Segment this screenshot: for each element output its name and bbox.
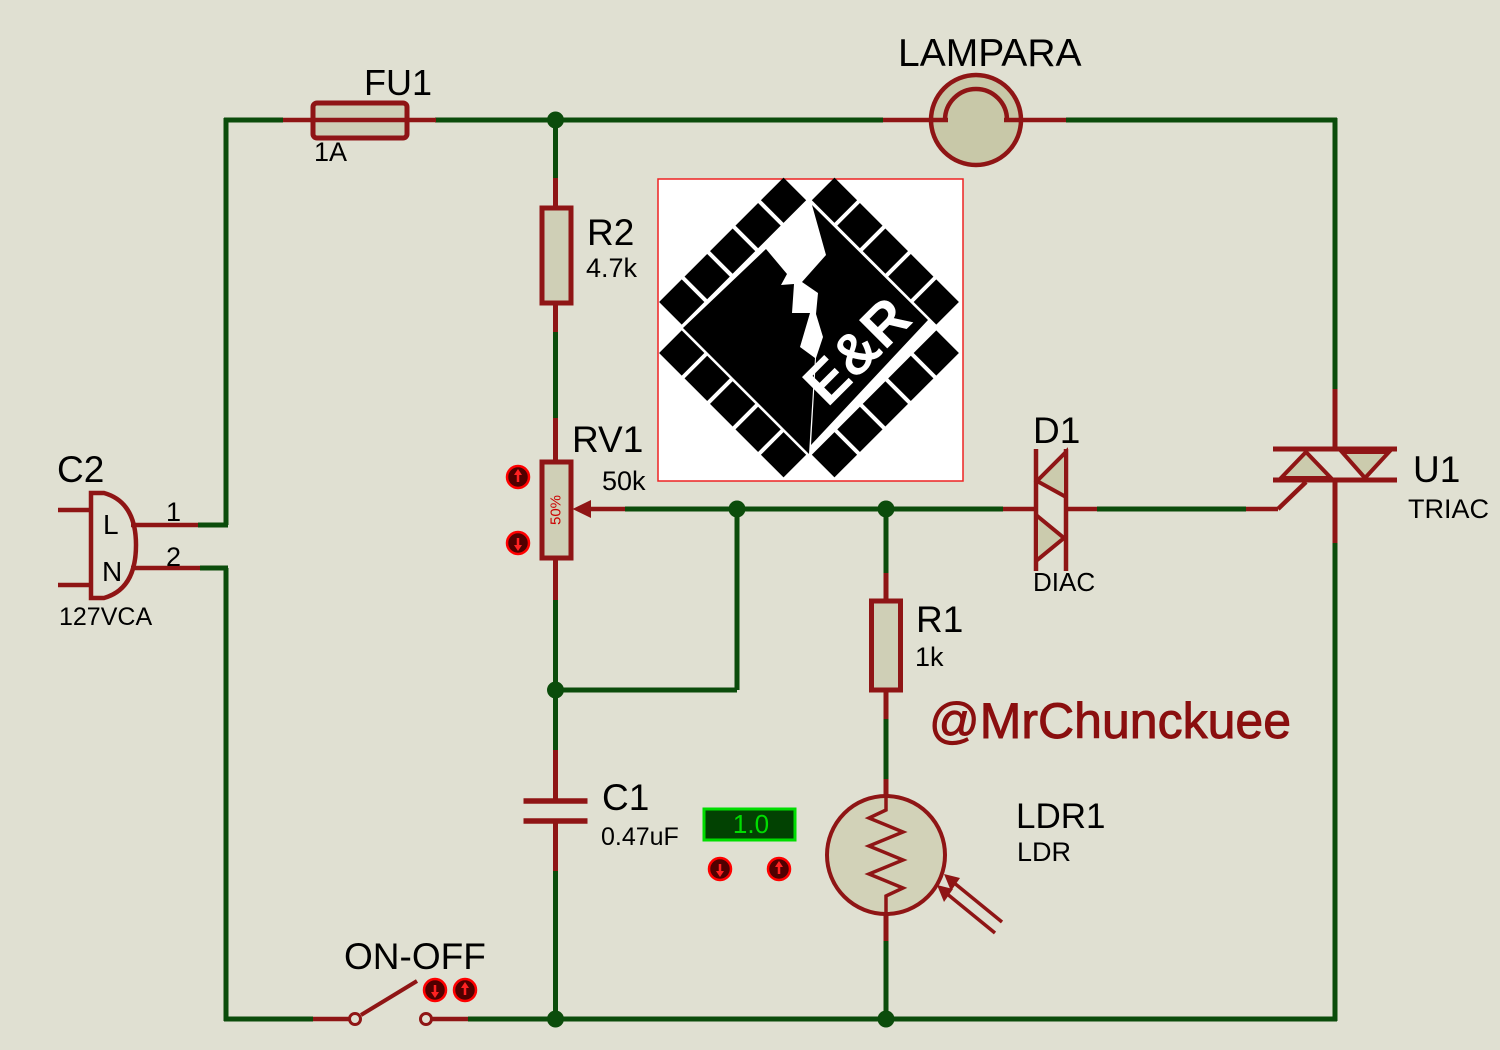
wire bottom rail right [468, 1017, 1337, 1022]
svg-text:R1: R1 [916, 599, 963, 640]
svg-text:1: 1 [166, 497, 181, 527]
svg-text:C2: C2 [57, 449, 104, 490]
svg-text:RV1: RV1 [572, 419, 643, 460]
switch ON-OFF [313, 936, 486, 1025]
wire right vertical lower [1333, 543, 1338, 1021]
pin 2 of C2 [131, 566, 200, 571]
wire wiper horizontal [625, 507, 1003, 512]
svg-text:TRIAC: TRIAC [1408, 494, 1489, 524]
svg-text:R2: R2 [587, 212, 634, 253]
logo E&R [634, 152, 985, 503]
wire LDR column bottom [884, 941, 889, 1019]
node wiper branch junction [729, 501, 746, 518]
LDR up button [768, 858, 790, 880]
capacitor C1 [524, 750, 679, 871]
wire R1 column mid [884, 719, 889, 779]
LDR down button [709, 858, 731, 880]
node LDR bottom junction [878, 1011, 895, 1028]
wire top rail left [224, 118, 283, 123]
svg-text:1.0: 1.0 [733, 809, 769, 839]
wire diac to gate [1097, 507, 1246, 512]
svg-text:LDR: LDR [1017, 837, 1071, 867]
svg-text:LDR1: LDR1 [1016, 797, 1105, 836]
connector C2 [57, 449, 200, 631]
resistor R2 [542, 178, 638, 332]
lamp LAMPARA [883, 32, 1082, 165]
wire top rail right [1066, 118, 1337, 123]
svg-text:N: N [102, 556, 122, 587]
svg-text:@MrChunckuee: @MrChunckuee [929, 693, 1291, 749]
switch up button [454, 979, 476, 1001]
svg-text:1k: 1k [915, 642, 944, 672]
svg-text:127VCA: 127VCA [59, 603, 152, 631]
wire left vertical lower [224, 568, 229, 1021]
svg-text:4.7k: 4.7k [586, 253, 638, 283]
svg-text:U1: U1 [1413, 449, 1460, 490]
svg-text:1A: 1A [314, 137, 347, 167]
wire bottom rail left [224, 1017, 313, 1022]
wire wiper branch vertical [735, 509, 740, 690]
LDR value display 1.0 [704, 809, 795, 840]
wire center column seg3 (RV1 to C1) [553, 600, 558, 750]
resistor R1 [872, 573, 964, 719]
wire center column seg2 (R2 to RV1) [553, 332, 558, 418]
svg-text:DIAC: DIAC [1033, 567, 1095, 597]
wire wiper branch horizontal [556, 688, 738, 693]
RV1 up button [507, 466, 529, 488]
wire center column seg4 (C1 to bottom rail) [553, 871, 558, 1019]
svg-text:FU1: FU1 [364, 62, 432, 103]
wire top rail middle [435, 118, 883, 123]
LDR LDR1 [827, 779, 1105, 941]
node R1 top junction [878, 501, 895, 518]
svg-text:C1: C1 [602, 777, 649, 818]
wire R1 column top [884, 509, 889, 573]
wire center column seg1 [553, 120, 558, 178]
diac D1 [1003, 410, 1097, 597]
svg-text:50%: 50% [547, 495, 564, 525]
potentiometer RV1 [542, 418, 646, 600]
svg-text:0.47uF: 0.47uF [601, 823, 679, 851]
fuse FU1 [283, 62, 436, 167]
wire right vertical upper [1333, 118, 1338, 389]
svg-text:LAMPARA: LAMPARA [898, 32, 1082, 75]
svg-text:L: L [103, 509, 119, 540]
triac U1 [1246, 389, 1489, 543]
node RV1/C1 junction [547, 682, 564, 699]
RV1 down button [507, 532, 529, 554]
wire left vertical upper [224, 118, 229, 525]
node C1 bottom junction [547, 1011, 564, 1028]
wire C2 pin2 link [200, 566, 228, 571]
svg-text:D1: D1 [1033, 410, 1080, 451]
junction node dots [547, 112, 895, 1028]
wire C2 pin1 link [198, 523, 228, 528]
switch down button [424, 979, 446, 1001]
node fuse/R2 junction [547, 112, 564, 129]
svg-text:ON-OFF: ON-OFF [344, 936, 486, 977]
svg-text:2: 2 [166, 542, 181, 572]
pin 1 of C2 [131, 523, 198, 528]
svg-text:50k: 50k [602, 466, 646, 496]
